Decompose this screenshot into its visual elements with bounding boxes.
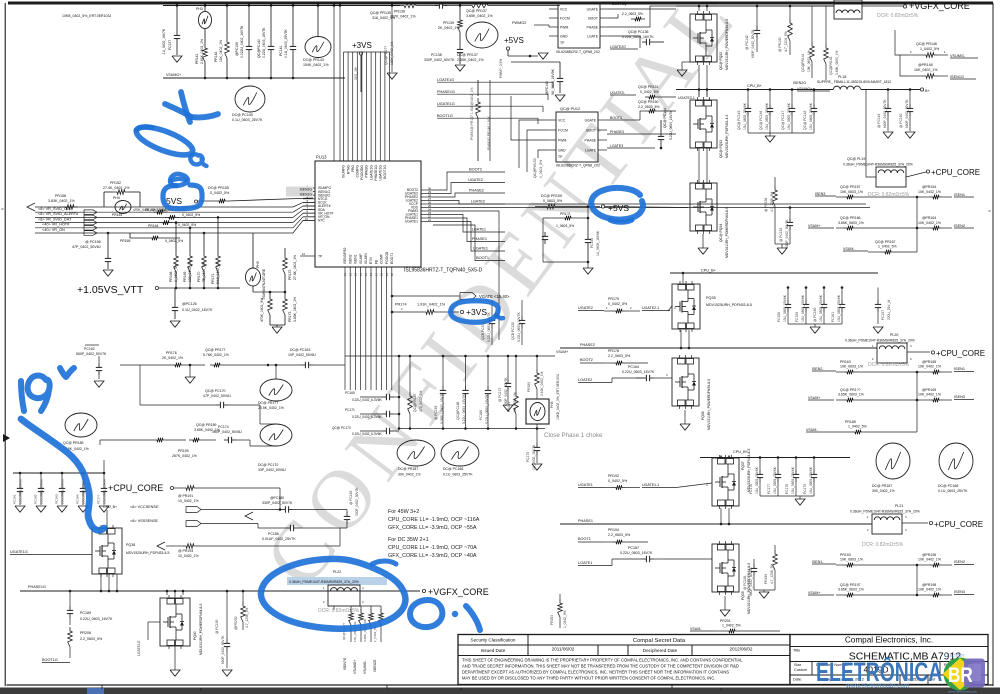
svg-text:UGATE1: UGATE1 (405, 220, 418, 224)
capacitor PC159 (805, 300, 807, 304)
svg-text:PR136: PR136 (394, 10, 405, 14)
svg-text:ISEN3: ISEN3 (954, 395, 965, 399)
svg-text:QC@ PR189: QC@ PR189 (63, 441, 84, 445)
svg-text:@ PC169: @ PC169 (434, 405, 438, 420)
svg-text:DCR: 0.82mΩ±5%: DCR: 0.82mΩ±5% (862, 542, 904, 548)
svg-text:DCR: 0.82mΩ±5%: DCR: 0.82mΩ±5% (318, 608, 360, 614)
ground PC172 (503, 405, 513, 411)
wire PL22 pins below (351, 605, 381, 607)
svg-text:ISL95836HRTZ-T_TQFN40_5X5-D: ISL95836HRTZ-T_TQFN40_5X5-D (404, 268, 483, 274)
op-amp U PU11 gate driver (558, 2, 600, 48)
svg-text:FCCM: FCCM (560, 16, 570, 20)
svg-text:ISEN2G: ISEN2G (300, 188, 313, 192)
svg-text:27.4K_0402_1%: 27.4K_0402_1% (103, 186, 130, 190)
svg-text:PR193: PR193 (840, 553, 851, 557)
svg-text:@ PC149: @ PC149 (877, 113, 881, 128)
svg-text:@PC180: @PC180 (270, 496, 284, 500)
resistor PR181 mid (514, 392, 519, 414)
inductor PL17 (834, 0, 862, 19)
capacitor PC139 (248, 42, 250, 46)
svg-text:10U_0805_25V6K: 10U_0805_25V6K (787, 102, 791, 130)
svg-text:PC161: PC161 (831, 312, 835, 322)
svg-text:@PR200: @PR200 (234, 616, 238, 630)
svg-text:DC@ PR187: DC@ PR187 (872, 484, 892, 488)
PU13 pin 41 TP (300, 255, 315, 257)
svg-text:PC165: PC165 (345, 391, 355, 395)
svg-text:20: 20 (390, 272, 394, 276)
PU13 right net BOOT1 (433, 225, 505, 261)
svg-text:QC@ PR150: QC@ PR150 (638, 100, 659, 104)
ground PC153 PR156 (775, 217, 790, 219)
svg-text:PR168: PR168 (169, 272, 173, 282)
svg-text:QC@ PR167: QC@ PR167 (875, 240, 896, 244)
svg-text:@PC126: @PC126 (182, 302, 197, 306)
svg-text:QC@ PR197: QC@ PR197 (840, 583, 861, 587)
svg-text:267K_0402_1%: 267K_0402_1% (172, 454, 197, 458)
svg-text:QC@ PQ32: QC@ PQ32 (719, 52, 723, 70)
wire ISEN join PL21 (916, 565, 918, 595)
wire PQ35 to PHASE2 bus (680, 330, 682, 348)
transistor Q PQ33 (690, 100, 717, 148)
svg-text:TP: TP (560, 41, 565, 45)
blue annotation 0 dot check (410, 600, 442, 627)
svg-text:5: 5 (200, 688, 202, 692)
svg-text:PHASE1: PHASE1 (578, 519, 593, 523)
svg-text:c: c (989, 208, 991, 213)
ellipse PC170 (260, 424, 292, 446)
ground +5VS stub (538, 53, 548, 59)
svg-text:0.22U_0603_16V7K: 0.22U_0603_16V7K (620, 551, 653, 555)
svg-text:10U_0805_25V6K: 10U_0805_25V6K (61, 478, 65, 504)
svg-text:<40> VR_HOT#: <40> VR_HOT# (42, 223, 70, 227)
svg-text:<8> VCCSENSE: <8> VCCSENSE (130, 505, 159, 509)
svg-text:1_0402_5%: 1_0402_5% (878, 245, 897, 249)
svg-text:0_0402_5%: 0_0402_5% (174, 264, 178, 282)
svg-text:PC186: PC186 (268, 532, 279, 536)
svg-text:PR171: PR171 (211, 274, 215, 284)
svg-text:VSUMG+: VSUMG+ (166, 73, 181, 77)
svg-text:3.65K_0603_1%: 3.65K_0603_1% (838, 393, 864, 397)
svg-text:ISEN2: ISEN2 (954, 224, 965, 228)
svg-text:0.22U_0603_16V7K: 0.22U_0603_16V7K (462, 394, 466, 424)
svg-text:0.22U_0603_16V7K: 0.22U_0603_16V7K (262, 27, 266, 58)
svg-text:0.1U_0603_25V7K: 0.1U_0603_25V7K (443, 473, 473, 477)
resistor column ISEN-G 3 (369, 609, 374, 625)
resistor PR164 (159, 220, 173, 225)
svg-text:4.7_1206_5%: 4.7_1206_5% (784, 31, 788, 52)
resistor PR149 (824, 44, 829, 64)
svg-text:AND TRADE SECRET INFORMATION.: AND TRADE SECRET INFORMATION. THIS SHEET… (462, 664, 739, 669)
left border arrow (3, 434, 10, 442)
ground for PC137 (172, 56, 182, 62)
wires PU11 outputs (609, 8, 676, 10)
capacitor PC152 (521, 316, 523, 320)
svg-text:QC@ PU12: QC@ PU12 (560, 107, 580, 111)
svg-text:0.1U_0603_25V7K: 0.1U_0603_25V7K (232, 118, 263, 122)
svg-text:www.eletronicabr.com: www.eletronicabr.com (845, 683, 909, 690)
svg-text:PR158: PR158 (55, 194, 66, 198)
svg-text:QC@ PC173: QC@ PC173 (332, 426, 351, 430)
svg-text:PR141: PR141 (195, 54, 199, 64)
svg-text:UGATE2-1: UGATE2-1 (642, 306, 659, 310)
svg-text:12: 12 (348, 272, 352, 276)
svg-text:TSM0847NJ4702RE: TSM0847NJ4702RE (262, 268, 266, 300)
svg-text:GFX_CORE LL= -3.9mΩ, OCP ~40A: GFX_CORE LL= -3.9mΩ, OCP ~40A (388, 553, 477, 559)
svg-text:@PC143: @PC143 (545, 81, 549, 95)
ground PQ34 (698, 248, 708, 254)
svg-text:PC177: PC177 (767, 484, 771, 494)
svg-text:10U_0805_25V6K: 10U_0805_25V6K (743, 102, 747, 130)
capacitor PC161 (841, 300, 843, 304)
svg-text:PQ40: PQ40 (193, 631, 197, 640)
svg-text:19: 19 (385, 272, 389, 276)
svg-text:0.22U_0402_6.3V6K: 0.22U_0402_6.3V6K (352, 415, 382, 419)
svg-text:Compal Secret Data: Compal Secret Data (633, 638, 686, 644)
resistor PR169 (188, 252, 193, 272)
svg-text:10K_0402_1%: 10K_0402_1% (918, 221, 941, 225)
svg-text:11: 11 (343, 273, 347, 276)
svg-text:0.22U_0603_16V7K: 0.22U_0603_16V7K (669, 110, 673, 140)
wire bundle PU13 top pins (343, 52, 345, 161)
capacitor PC137 (176, 31, 178, 35)
svg-text:DC@ PC140: DC@ PC140 (232, 113, 253, 117)
svg-text:PGOOD: PGOOD (385, 251, 389, 264)
svg-text:@ PR193: @ PR193 (178, 549, 193, 553)
svg-text:RTN: RTN (369, 257, 373, 264)
svg-text:10U_0805_25V6K: 10U_0805_25V6K (773, 466, 777, 494)
svg-text:47P_0402_50V8J: 47P_0402_50V8J (203, 394, 231, 398)
capacitor PC146 (769, 104, 771, 108)
svg-text:BOOT1G: BOOT1G (42, 658, 58, 662)
svg-text:PC171: PC171 (345, 408, 355, 412)
svg-text:@ PC185: @ PC185 (349, 490, 353, 505)
svg-text:680P_0402_50V7K: 680P_0402_50V7K (905, 99, 909, 128)
svg-text:PL20: PL20 (890, 333, 898, 337)
svg-text:PR199: PR199 (764, 574, 768, 584)
svg-text:PQ37: PQ37 (741, 461, 745, 470)
capacitor PC142 (756, 26, 758, 30)
wire loop PC bank (279, 488, 281, 510)
svg-text:@PR154: @PR154 (922, 185, 936, 189)
svg-text:680P_0402_50V7K: 680P_0402_50V7K (785, 219, 789, 248)
svg-text:PC187: PC187 (628, 546, 639, 550)
svg-text:BOOT1G: BOOT1G (383, 165, 387, 179)
svg-text:QC@ PR146: QC@ PR146 (916, 42, 937, 46)
transistor Q PQ40 (160, 598, 190, 646)
svg-text:2.55K_0402_1%: 2.55K_0402_1% (457, 58, 484, 62)
wires PU12 left pins (519, 120, 547, 168)
ground PC176-179 (760, 495, 814, 497)
PU13 right net UGATE2 (433, 183, 505, 194)
svg-text:PC178: PC178 (785, 484, 789, 494)
svg-text:PHASE1G: PHASE1G (28, 585, 46, 589)
arrow PR193 (157, 542, 165, 550)
svg-text:LGATE2: LGATE2 (471, 200, 485, 204)
svg-text:UGATE1G: UGATE1G (379, 165, 383, 181)
page top border bar (8, 2, 993, 5)
blue annotation long stroke (21, 419, 104, 530)
svg-text:MDV1511RH_POWERDFN56-8-5: MDV1511RH_POWERDFN56-8-5 (707, 379, 711, 430)
ellipse PC168 mid-left (441, 440, 479, 466)
capacitor PC147 (791, 104, 793, 108)
svg-text:0.22U_0402_6.3V6K: 0.22U_0402_6.3V6K (352, 432, 382, 436)
svg-text:680P_0402_50V7K: 680P_0402_50V7K (749, 567, 753, 596)
resistor PR165 (148, 236, 162, 241)
svg-text:PR176: PR176 (166, 351, 177, 355)
svg-text:ISEN1G: ISEN1G (300, 193, 313, 197)
svg-text:41: 41 (302, 252, 306, 256)
ground column PW (391, 6, 393, 73)
svg-text:267K_0402_1%: 267K_0402_1% (390, 15, 416, 19)
svg-text:1_0402_5%: 1_0402_5% (920, 47, 940, 51)
svg-text:PQ38: PQ38 (126, 543, 135, 547)
svg-text:QC@PR144: QC@PR144 (801, 53, 805, 72)
svg-text:3.65K_0603_1%: 3.65K_0603_1% (835, 51, 839, 75)
svg-text:VSUM+: VSUM+ (808, 396, 820, 400)
svg-text:GND: GND (558, 148, 566, 152)
svg-text:BOOT1: BOOT1 (390, 253, 394, 264)
blue annotation 19 check (21, 381, 24, 411)
svg-text:2.2_0603_5%: 2.2_0603_5% (638, 105, 660, 109)
capacitor PC188 (753, 564, 755, 568)
svg-text:13: 13 (354, 272, 358, 276)
svg-text:5.76K_0402_1%: 5.76K_0402_1% (203, 353, 229, 357)
svg-text:10_0402_1%: 10_0402_1% (178, 554, 199, 558)
net +VGFX_CORE top (903, 5, 906, 8)
svg-text:LGATE3: LGATE3 (610, 144, 623, 148)
svg-text:0.36UH_PDME104T-R36MS0R825_37A: 0.36UH_PDME104T-R36MS0R825_37A_20% (850, 510, 920, 514)
svg-text:PQ35: PQ35 (706, 296, 716, 300)
svg-text:BOOT1: BOOT1 (476, 256, 489, 260)
svg-text:PWM: PWM (558, 138, 566, 142)
svg-text:1_0402_5%: 1_0402_5% (563, 610, 567, 628)
resistor PR140 (788, 19, 793, 41)
svg-text:.1U_0402_16V7K: .1U_0402_16V7K (162, 28, 166, 55)
svg-text:PR164: PR164 (148, 224, 158, 228)
resistor PR147 column (476, 98, 481, 118)
wire PQ33 to PQ34 (698, 148, 700, 183)
svg-text:10U_0805_25V6K: 10U_0805_25V6K (40, 478, 44, 504)
svg-text:LGATE1G: LGATE1G (369, 165, 373, 180)
ellipse PR187 mid-left (397, 440, 435, 466)
svg-text:PR192: PR192 (608, 474, 619, 478)
wire PL22 to VGFX (360, 590, 420, 592)
svg-text:1_0603_5%: 1_0603_5% (556, 224, 574, 228)
svg-text:PR174: PR174 (395, 303, 407, 307)
svg-text:PHASE1G: PHASE1G (437, 90, 455, 94)
svg-text:PC141: PC141 (279, 46, 283, 56)
svg-text:PWMG2: PWMG2 (512, 21, 526, 25)
ground PC188 PR199 (754, 589, 775, 591)
ellipse PR189 bottom (65, 413, 97, 437)
svg-text:130_0402_1%: 130_0402_1% (188, 260, 192, 282)
svg-text:0.22U_0603_10V7K: 0.22U_0603_10V7K (487, 312, 491, 342)
svg-text:560P_0402_50V7K: 560P_0402_50V7K (76, 352, 107, 356)
svg-text:0_0402_5%: 0_0402_5% (608, 302, 628, 306)
svg-text:0.022U_0402_16V7K: 0.022U_0402_16V7K (240, 25, 244, 58)
svg-text:MDV1511RH_POWERDFN56-8-5: MDV1511RH_POWERDFN56-8-5 (725, 19, 729, 70)
svg-text:PR163: PR163 (840, 360, 851, 364)
svg-text:PR172: PR172 (288, 270, 292, 280)
svg-text:PR203: PR203 (550, 615, 554, 625)
svg-text:@ PC142: @ PC142 (745, 35, 749, 50)
svg-text:10K_0603_1%: 10K_0603_1% (807, 50, 811, 72)
svg-text:UGATE2: UGATE2 (578, 306, 593, 310)
capacitor PC144 (660, 132, 662, 136)
svg-text:220U_25V_M: 220U_25V_M (887, 300, 891, 320)
svg-text:BOOT1: BOOT1 (578, 537, 591, 541)
svg-text:@ PC160: @ PC160 (813, 307, 817, 322)
wire top bus center (340, 5, 400, 7)
svg-text:@PR196: @PR196 (922, 553, 936, 557)
svg-text:0.1U_0603_25V7K: 0.1U_0603_25V7K (284, 29, 288, 58)
ellipse PR177 (260, 379, 292, 401)
svg-text:UGATE1G: UGATE1G (437, 102, 455, 106)
resistor PR142 (225, 38, 230, 58)
capacitor PC154 (544, 232, 546, 236)
svg-text:BOOT1G: BOOT1G (437, 114, 453, 118)
svg-text:17: 17 (374, 272, 378, 276)
PU13 bottom pins bundle (344, 267, 346, 390)
svg-text:21: 21 (428, 218, 432, 222)
svg-text:PC158: PC158 (777, 312, 781, 322)
capacitor PC179 (813, 470, 815, 474)
PU13 right pins (421, 189, 433, 191)
arrow into PC180 (245, 512, 253, 520)
svg-text:0.1U_0402_16V7K: 0.1U_0402_16V7K (182, 308, 213, 312)
ground PQ32 gate (677, 70, 687, 76)
svg-text:LGATE1G: LGATE1G (137, 640, 141, 656)
svg-text:20.5K_0402_1%: 20.5K_0402_1% (258, 406, 284, 410)
ground PQ36 (680, 424, 690, 430)
svg-text:10K_0603_1%: 10K_0603_1% (353, 621, 357, 642)
svg-text:Deciphered Date: Deciphered Date (643, 648, 678, 653)
svg-text:@PR198: @PR198 (922, 583, 936, 587)
svg-text:ISUMN: ISUMN (364, 253, 368, 264)
svg-text:THIS SHEET OF ENGINEERING DRAW: THIS SHEET OF ENGINEERING DRAWING IS THE… (462, 658, 743, 663)
svg-text:PR201: PR201 (720, 619, 731, 623)
svg-text:0.22U_0603_10V7K: 0.22U_0603_10V7K (517, 312, 521, 342)
bus arrow left (27, 203, 35, 211)
svg-text:0.01UF_0402_25V7K: 0.01UF_0402_25V7K (262, 537, 296, 541)
capacitor PC189 (69, 606, 71, 610)
svg-text:1K_0402_1%: 1K_0402_1% (513, 392, 517, 412)
wire caps row rails (398, 356, 400, 429)
capacitor PC148 (813, 104, 815, 108)
svg-text:QC@ PC147: QC@ PC147 (781, 111, 785, 130)
svg-text:DC@ PR143: DC@ PR143 (303, 58, 324, 62)
blue annotation 0k squiggle (181, 92, 190, 122)
svg-text:PR169: PR169 (183, 272, 187, 282)
svg-text:QC@ PR166: QC@ PR166 (840, 216, 861, 220)
svg-text:@PR165: @PR165 (922, 360, 936, 364)
svg-text:PR194: PR194 (608, 528, 619, 532)
label ISEN2G highlighted (286, 187, 313, 192)
svg-text:3.65K_0603_1%: 3.65K_0603_1% (363, 619, 367, 642)
svg-text:0.36UH_PDME104T-R36MS0R825_37A: 0.36UH_PDME104T-R36MS0R825_37A_20% (843, 163, 913, 167)
svg-text:PHASE: PHASE (585, 138, 597, 142)
resistor PR170 (202, 252, 207, 272)
svg-text:2.2_0603_5%: 2.2_0603_5% (80, 637, 103, 641)
svg-text:ISL6208BCRZ-T_QFN8_2X2: ISL6208BCRZ-T_QFN8_2X2 (556, 50, 600, 54)
svg-text:DC@ PC163: DC@ PC163 (290, 348, 310, 352)
svg-text:390_0402_1%: 390_0402_1% (872, 489, 895, 493)
svg-text:PU13: PU13 (316, 155, 327, 160)
svg-text:PC174: PC174 (218, 425, 229, 429)
svg-text:189K_0402_1%: 189K_0402_1% (390, 41, 394, 65)
svg-text:10K_0402_1%: 10K_0402_1% (918, 393, 941, 397)
resistor column ISEN-G 4 (379, 609, 384, 625)
capacitor PC172 (507, 379, 509, 383)
resistor column ISEN-G 1 (349, 609, 354, 625)
net +CPU_CORE PL19 (926, 170, 929, 173)
svg-text:PWM?_0.5%: PWM?_0.5% (499, 59, 503, 78)
svg-text:+VGFX_CORE: +VGFX_CORE (909, 1, 970, 11)
svg-text:14: 14 (359, 272, 363, 276)
svg-text:VGATE <15,40>: VGATE <15,40> (479, 294, 510, 299)
svg-text:2011/06/02: 2011/06/02 (552, 647, 575, 652)
svg-text:CPU_B+: CPU_B+ (103, 505, 117, 509)
svg-text:<8> VSSSENSE: <8> VSSSENSE (130, 519, 159, 523)
svg-text:CPU_CORE LL= -1.9mΩ, OCP ~116A: CPU_CORE LL= -1.9mΩ, OCP ~116A (388, 517, 480, 523)
svg-text:UGATE2: UGATE2 (468, 178, 483, 182)
svg-text:10KB_0402_5%_ERT.0ER103J: 10KB_0402_5%_ERT.0ER103J (62, 14, 111, 18)
svg-text:COMPG: COMPG (356, 165, 360, 178)
capacitor PC185 (346, 512, 348, 516)
ground PC150 (905, 132, 915, 138)
svg-text:FBG: FBG (351, 165, 355, 172)
svg-text:PC183: PC183 (55, 494, 59, 504)
svg-text:PC176: PC176 (749, 484, 753, 494)
svg-text:+CPU_CORE: +CPU_CORE (934, 520, 983, 529)
svg-text:0_0603_5%: 0_0603_5% (543, 199, 563, 203)
svg-text:10K_0402_1%: 10K_0402_1% (914, 68, 938, 72)
resistor PR136 on bus (400, 3, 420, 8)
svg-text:330P_0402_50V7K: 330P_0402_50V7K (262, 501, 293, 505)
svg-text:0_0603_5%: 0_0603_5% (539, 160, 543, 178)
svg-text:@ PC172: @ PC172 (498, 387, 502, 402)
capacitor PC145 (747, 104, 749, 108)
svg-text:QC@ PR177: QC@ PR177 (205, 348, 226, 352)
title block row lines (458, 644, 790, 646)
svg-text:+3VS: +3VS (352, 41, 372, 50)
svg-text:2012/06/02: 2012/06/02 (730, 647, 753, 652)
ellipse PC168 right (939, 443, 973, 479)
svg-text:PHASE2: PHASE2 (469, 189, 484, 193)
ground mid loop (185, 377, 195, 383)
svg-text:PC181: PC181 (13, 494, 17, 504)
wire +5VS to PQ34 gate (601, 205, 604, 208)
svg-text:c: c (2, 206, 4, 211)
svg-text:ISEN2G: ISEN2G (793, 81, 806, 85)
svg-text:Title: Title (793, 648, 801, 653)
svg-text:PR142: PR142 (214, 52, 218, 62)
transistor Q PQ36 (672, 358, 699, 406)
svg-text:10K_0402_1%: 10K_0402_1% (918, 588, 941, 592)
svg-text:BOOT: BOOT (586, 128, 596, 132)
svg-text:680P_0402_50V7K: 680P_0402_50V7K (221, 635, 225, 664)
svg-text:2.2_0603_5%: 2.2_0603_5% (622, 12, 643, 16)
wire VSUMG+ bottom bus (163, 77, 345, 79)
svg-text:ISEN1-: ISEN1- (812, 560, 824, 564)
svg-text:PC1??: PC1?? (97, 494, 101, 504)
net B+ right (920, 88, 923, 91)
ground PC149 (883, 132, 893, 138)
svg-text:PWM3@ PR147 1.91K@0402_1%: PWM3@ PR147 1.91K@0402_1% (470, 88, 474, 141)
svg-text:QC@ PC148: QC@ PC148 (803, 111, 807, 130)
svg-text:QC@ PR137: QC@ PR137 (466, 9, 487, 13)
svg-text:0_0402_5%: 0_0402_5% (640, 90, 659, 94)
